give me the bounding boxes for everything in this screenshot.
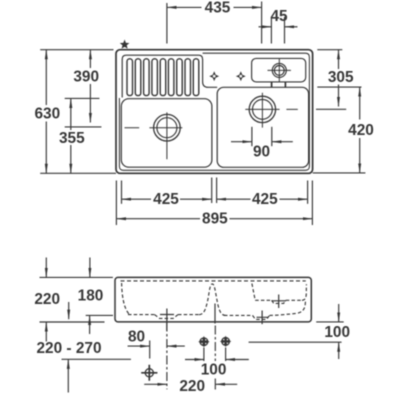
dim 45 extension lines — [270, 17, 272, 44]
dim 80 extension — [149, 341, 151, 359]
drainer panel outline — [122, 55, 217, 97]
tap hole inner circle — [274, 66, 284, 76]
dim 45 arrows — [259, 26, 272, 28]
side 180 bottom extension — [86, 314, 113, 316]
mounting hole star right — [220, 336, 231, 347]
right drain crosshair — [245, 93, 297, 128]
right drain outer circle — [249, 96, 275, 122]
svg-text:220: 220 — [179, 378, 205, 395]
svg-text:100: 100 — [201, 362, 227, 379]
side bottom extension right — [316, 321, 344, 323]
dim 100 taps arrows — [185, 359, 204, 361]
tap box tick left — [271, 82, 273, 87]
mounting hole extension lines — [203, 348, 205, 362]
mounting hole star left — [198, 336, 209, 347]
svg-text:305: 305 — [328, 69, 354, 86]
dim 220 arrows (side left) — [45, 258, 47, 278]
svg-text:220 - 270: 220 - 270 — [36, 340, 101, 357]
side view inner top dashed line — [121, 280, 306, 282]
left drain centerline cross (side) — [160, 309, 174, 331]
dim 180 arrows — [89, 258, 91, 278]
asterisk mark top left — [121, 41, 129, 48]
left basin hidden contour — [122, 283, 226, 318]
tap box tick right — [284, 82, 286, 87]
svg-text:80: 80 — [128, 329, 145, 346]
svg-text:420: 420 — [348, 122, 374, 139]
left bowl — [121, 99, 212, 168]
svg-text:390: 390 — [73, 68, 99, 85]
dim 390 line — [89, 50, 91, 68]
dim 435 line — [167, 6, 202, 8]
dim 630 line — [45, 50, 47, 105]
dim 90 extension lines — [251, 127, 253, 146]
dim 420 line — [359, 87, 361, 119]
reference line right — [249, 341, 342, 343]
right drain cross (side) — [257, 311, 269, 325]
centerline middle (below) — [214, 326, 216, 362]
dim 305 extension mid — [316, 108, 346, 110]
svg-text:220: 220 — [34, 291, 60, 308]
left drain outer circle — [154, 114, 181, 141]
bottom edge extension left — [40, 172, 116, 174]
dim 435 extension right — [261, 2, 263, 44]
side top extension line — [40, 276, 113, 278]
right drain inner circle — [253, 100, 273, 120]
wall mounting hole star — [141, 365, 157, 381]
svg-text:435: 435 — [205, 0, 231, 17]
bottom edge extension right — [313, 172, 366, 174]
dim 90 arrows — [231, 141, 252, 143]
centerline left drain (below) — [166, 323, 168, 390]
drainer grooves — [127, 59, 199, 96]
deck sparkle right — [236, 71, 246, 81]
dim 355 extension — [65, 97, 100, 99]
dim 80 arrows — [128, 345, 150, 347]
dim 100 right arrows — [338, 304, 340, 322]
top edge extension left — [40, 49, 113, 51]
tap hole cross (side) — [272, 295, 287, 309]
side 220 bottom extension — [40, 321, 105, 323]
dim 220-270 arrows — [68, 302, 70, 319]
dim 435 extension left — [166, 3, 168, 44]
svg-text:895: 895 — [202, 211, 228, 228]
deck sparkle left — [209, 71, 219, 81]
svg-text:90: 90 — [253, 143, 270, 160]
svg-text:425: 425 — [252, 191, 278, 208]
dim 895 — [116, 218, 200, 220]
svg-text:425: 425 — [153, 191, 179, 208]
sink inner rim line — [119, 53, 309, 170]
dim 420 extension top — [317, 86, 361, 88]
dim 355 line — [70, 98, 72, 130]
wall line — [62, 358, 131, 360]
sink outer rim (top view) — [116, 50, 313, 174]
tap hole outer circle — [272, 63, 286, 77]
svg-text:45: 45 — [270, 8, 288, 25]
dim 305 line — [338, 50, 340, 69]
side view body — [115, 277, 311, 322]
svg-text:180: 180 — [78, 287, 104, 304]
dim 425 right — [217, 198, 251, 200]
svg-text:100: 100 — [324, 324, 350, 341]
left drain inner circle — [157, 118, 177, 138]
dim 220 bottom arrows — [144, 383, 167, 385]
top edge extension right — [317, 49, 342, 51]
right basin hidden contour — [224, 284, 306, 320]
tap hole crosshair — [268, 59, 291, 82]
svg-text:355: 355 — [59, 130, 85, 147]
centerline middle solid segment — [214, 304, 216, 324]
svg-text:630: 630 — [34, 106, 60, 123]
tap box — [252, 58, 306, 82]
left drain crosshair — [125, 112, 183, 159]
dim 425 left — [122, 198, 152, 200]
dim 390 extension — [65, 126, 102, 128]
right bowl — [217, 87, 308, 167]
dim 425 extension lines below — [115, 181, 117, 226]
